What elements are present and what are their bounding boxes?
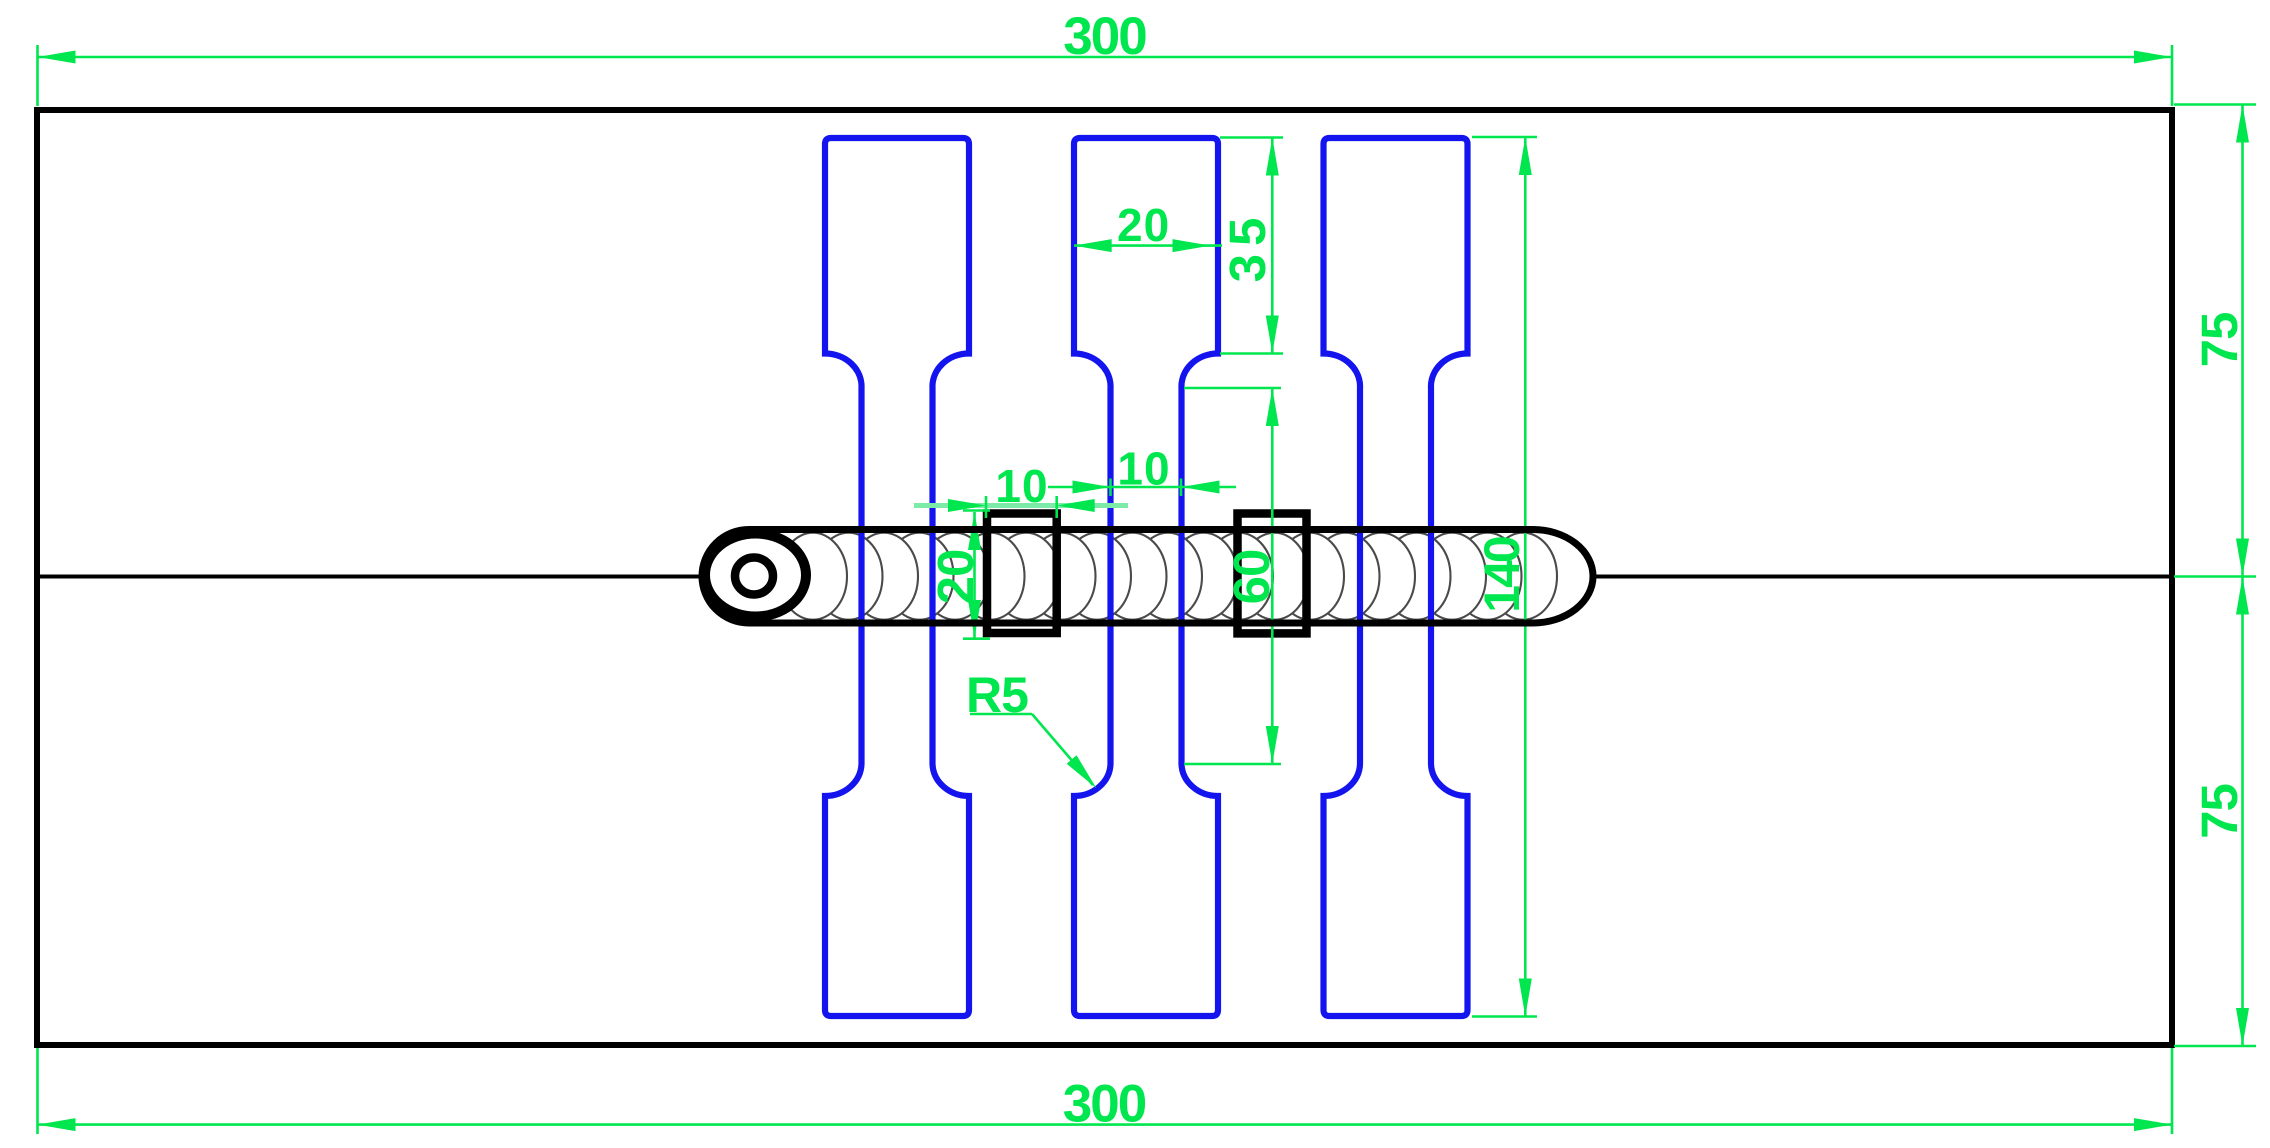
svg-text:10: 10 [995, 460, 1048, 512]
svg-text:20: 20 [927, 550, 984, 605]
svg-text:20: 20 [1117, 199, 1170, 251]
svg-text:35: 35 [1219, 210, 1276, 283]
svg-text:75: 75 [2191, 313, 2248, 368]
svg-text:75: 75 [2191, 784, 2248, 839]
svg-text:60: 60 [1223, 550, 1280, 605]
svg-text:300: 300 [1063, 1075, 1146, 1134]
svg-text:10: 10 [1117, 443, 1170, 495]
svg-text:300: 300 [1063, 7, 1146, 66]
svg-text:R5: R5 [966, 667, 1028, 723]
svg-text:140: 140 [1474, 537, 1530, 613]
